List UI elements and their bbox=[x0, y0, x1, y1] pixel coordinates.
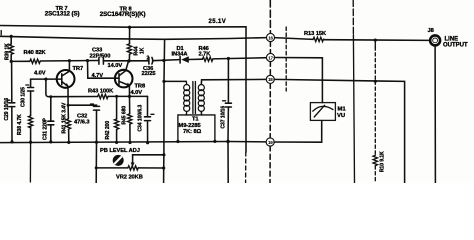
capacitor C33 22P/500 bbox=[90, 48, 111, 65]
junction node C34 ground bbox=[146, 141, 149, 144]
junction node C31 tap bbox=[49, 95, 52, 98]
diode D1 1N34A bbox=[172, 46, 189, 63]
svg-text:19: 19 bbox=[268, 140, 273, 145]
svg-text:PB LEVEL ADJ: PB LEVEL ADJ bbox=[100, 148, 140, 154]
junction node R41 ground bbox=[67, 141, 70, 144]
pin 18 bbox=[266, 75, 274, 83]
resistor R13 15K bbox=[304, 31, 327, 42]
svg-text:R40 82K: R40 82K bbox=[24, 50, 47, 56]
junction node C37 tap bbox=[227, 57, 230, 60]
svg-text:C29 10/16: C29 10/16 bbox=[4, 98, 10, 121]
junction node R42 tap bbox=[115, 95, 118, 98]
adjust icon (screwdriver slot) bbox=[113, 155, 124, 166]
svg-text:14.0V: 14.0V bbox=[108, 63, 123, 69]
wire TR7 emitter drop bbox=[67, 86, 69, 105]
svg-text:LINE: LINE bbox=[445, 37, 459, 43]
wire H3 C33 to C36 bbox=[103, 60, 148, 62]
junction node TR7 collector bbox=[68, 59, 71, 62]
svg-text:OUTPUT: OUTPUT bbox=[443, 43, 468, 49]
svg-text:4.0V: 4.0V bbox=[34, 71, 46, 77]
wire 25.1V rail drop at x=246 bbox=[245, 27, 247, 152]
capacitor C29 10/16 (vertical electrolytic) bbox=[4, 61, 15, 141]
wire J8 ground drop bbox=[434, 47, 436, 183]
wire board edge drop at x=30.5 bbox=[29, 142, 31, 182]
svg-text:C37 10/16: C37 10/16 bbox=[221, 106, 227, 129]
wire secondary top to pin 18 bbox=[201, 79, 266, 84]
capacitor C36 22/25 (on wire) bbox=[142, 56, 156, 78]
svg-text:17: 17 bbox=[268, 55, 273, 60]
wire H3 D1 to R46 bbox=[189, 58, 203, 60]
meter M1 VU bbox=[310, 103, 346, 121]
svg-text:2.7K: 2.7K bbox=[199, 52, 212, 58]
resistor R45 680 (vertical, TR8 emitter) bbox=[122, 96, 132, 142]
wire VR2 wiper feed bbox=[133, 155, 164, 162]
svg-text:16: 16 bbox=[268, 35, 273, 40]
svg-text:TR7: TR7 bbox=[73, 66, 84, 72]
wire main mid rail H3 (R39 to TR7 collector) bbox=[11, 60, 30, 62]
svg-text:R10 9.1K: R10 9.1K bbox=[380, 151, 386, 172]
wire VR2 rheostat riser (H3 drop continues to VR2) bbox=[163, 81, 165, 154]
svg-text:TR8: TR8 bbox=[135, 83, 146, 89]
junction node wiper tie bbox=[162, 153, 165, 156]
pin 17 bbox=[266, 53, 274, 61]
svg-text:J8: J8 bbox=[428, 28, 434, 34]
junction node C37 at ground rail bbox=[226, 140, 229, 143]
wire 25.1V rail (top) bbox=[0, 26, 246, 28]
junction node C29 at ground rail bbox=[10, 140, 13, 143]
wire R43 to TR8 emitter node bbox=[108, 95, 147, 97]
transformer T1 label frame bbox=[178, 115, 215, 142]
junction node C31 ground bbox=[49, 140, 52, 143]
junction node transformer primary top bbox=[162, 59, 165, 62]
svg-text:C34 100/6.3: C34 100/6.3 bbox=[138, 105, 144, 132]
junction node C32 ground bbox=[95, 141, 98, 144]
resistor R39 1K (vertical, from rail) bbox=[5, 35, 14, 62]
junction node primary top bbox=[162, 80, 165, 83]
label TR7 type bbox=[45, 6, 80, 17]
resistor R38 4.7K (below C30) bbox=[17, 114, 33, 142]
capacitor C37 10/16 (vertical electrolytic on meter return) bbox=[221, 59, 232, 142]
junction node R38 ground bbox=[29, 141, 32, 144]
junction node emitter/C32 bbox=[67, 104, 70, 107]
junction node R44/TR8 collector bbox=[127, 59, 130, 62]
wire emitter to C32 bbox=[68, 105, 96, 106]
wire R43 feedback run (TR7 base down and right) bbox=[46, 79, 98, 97]
transistor TR8 bbox=[115, 61, 145, 96]
transformer T1 primary coil bbox=[184, 85, 190, 112]
resistor R46 2.7K bbox=[199, 46, 213, 62]
resistor R10 9.1K (vertical, dashed leads) bbox=[373, 40, 386, 183]
wire H3 R40 to C33 bbox=[40, 60, 98, 63]
connector J8 bbox=[428, 28, 469, 49]
wire TR8 base feed bbox=[88, 61, 120, 79]
svg-text:22/25: 22/25 bbox=[142, 71, 156, 77]
svg-text:T1: T1 bbox=[192, 117, 199, 123]
junction node TR8 emitter bbox=[128, 95, 131, 98]
dashed board boundary x=286 bbox=[285, 27, 287, 91]
capacitor C30 1/25 (vertical electrolytic, from TR7 base) bbox=[20, 79, 33, 116]
junction node R10 top on pin18 wire bbox=[374, 80, 377, 83]
svg-text:M9-2285: M9-2285 bbox=[179, 123, 201, 129]
transistor TR7 bbox=[31, 61, 84, 88]
wire pin 17 to VU meter bbox=[274, 58, 322, 103]
junction node element left end bbox=[95, 166, 98, 169]
wire primary top to coil bbox=[164, 80, 186, 82]
resistor R42 200 (vertical) bbox=[105, 96, 119, 142]
junction node J8 feed / R10 tap bbox=[374, 39, 377, 42]
wire H3 R46 to pin 17 bbox=[213, 58, 267, 59]
svg-text:R13 15K: R13 15K bbox=[304, 31, 327, 37]
resistor R40 82K bbox=[24, 50, 47, 63]
svg-text:VR2 20KB: VR2 20KB bbox=[116, 174, 143, 180]
capacitor C32 47/6.3 (vertical electrolytic) bbox=[74, 104, 100, 142]
capacitor C34 100/6.3 (vertical electrolytic) bbox=[138, 96, 154, 142]
junction node TR8 base tap on H3 bbox=[86, 59, 89, 62]
transformer T1 core bbox=[193, 82, 196, 114]
wire left edge stub bbox=[0, 31, 2, 35]
dashed board boundary x=353.5 bbox=[352, 0, 354, 35]
junction node element right end bbox=[162, 166, 165, 169]
junction node R45 ground bbox=[128, 141, 131, 144]
svg-text:VU: VU bbox=[337, 113, 345, 119]
wire transformer primary drop (H2 corner down through H3 to T1 and VR2) bbox=[163, 39, 166, 81]
svg-text:2SC1647R(S)(K): 2SC1647R(S)(K) bbox=[100, 11, 146, 18]
svg-text:4.0V: 4.0V bbox=[131, 90, 143, 96]
svg-text:1K: 1K bbox=[140, 47, 146, 54]
wire ground bus bbox=[0, 142, 266, 143]
wire supply/pin16 rail to J8 bbox=[0, 36, 267, 39]
svg-text:R42 200: R42 200 bbox=[105, 121, 111, 140]
wire secondary bottom to frame bbox=[200, 111, 202, 115]
svg-text:47/6.3: 47/6.3 bbox=[74, 120, 90, 126]
capacitor C31 220P bbox=[42, 97, 54, 142]
wire 25.1V drop dashed lower part bbox=[245, 152, 247, 183]
wire pin 19 to meter return bbox=[274, 121, 322, 143]
pin 19 bbox=[266, 138, 274, 146]
svg-text:R43 100K: R43 100K bbox=[88, 89, 114, 95]
wire C37 continuation to board edge bbox=[227, 142, 229, 184]
connector pin column (dashed) bbox=[269, 0, 271, 34]
potentiometer VR2 20KB element bbox=[96, 166, 164, 181]
junction node R39 bottom bbox=[10, 60, 13, 63]
wire PB board edge left bbox=[95, 142, 97, 183]
resistor R44 1K (vertical from 25.1V rail) bbox=[127, 26, 145, 61]
svg-text:25.1V: 25.1V bbox=[209, 19, 227, 25]
wire H3 C36 to D1 bbox=[153, 60, 180, 61]
label TR8 type bbox=[100, 7, 146, 19]
junction node T1 frame left at ground bbox=[176, 140, 179, 143]
transformer T1 secondary coil bbox=[198, 85, 204, 112]
pin 16 bbox=[266, 33, 274, 41]
junction node R42 ground bbox=[115, 141, 118, 144]
svg-text:18: 18 bbox=[268, 77, 273, 82]
svg-text:R41 15K 3.4V: R41 15K 3.4V bbox=[61, 102, 67, 134]
resistor R43 100K bbox=[88, 89, 114, 99]
wiper arrow VR2 bbox=[131, 162, 135, 167]
resistor R41 15K (vertical) + 3.4V label bbox=[61, 102, 70, 142]
svg-text:22P/500: 22P/500 bbox=[90, 53, 111, 59]
svg-text:R38 4.7K: R38 4.7K bbox=[17, 114, 23, 135]
junction node TR7 base / R43 drop bbox=[44, 78, 47, 81]
junction node T1 frame right at ground bbox=[213, 140, 216, 143]
svg-text:C30 1/25: C30 1/25 bbox=[20, 87, 26, 107]
svg-text:M1: M1 bbox=[338, 106, 347, 112]
label T1 value bbox=[179, 117, 202, 136]
svg-text:7K: 8Ω: 7K: 8Ω bbox=[183, 129, 202, 135]
svg-text:2SC1312 (S): 2SC1312 (S) bbox=[45, 10, 80, 17]
wire pin 18 to R10 node and drop bbox=[274, 79, 405, 183]
